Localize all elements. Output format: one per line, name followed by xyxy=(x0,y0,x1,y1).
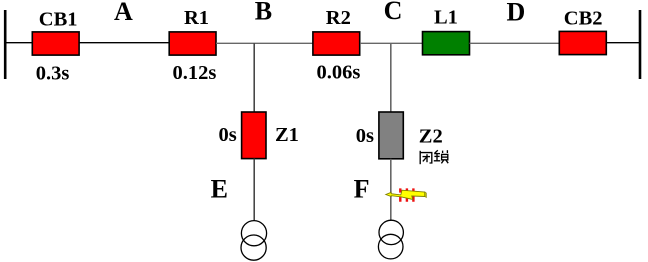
svg-text:D: D xyxy=(507,0,526,26)
wire node C down to Z2 xyxy=(390,43,392,112)
transformer T2 winding 2 xyxy=(378,234,403,259)
fault lightning arrow xyxy=(386,190,425,199)
svg-text:0s: 0s xyxy=(356,125,374,147)
svg-text:0s: 0s xyxy=(219,124,237,146)
svg-text:0.06s: 0.06s xyxy=(317,62,361,84)
svg-text:CB2: CB2 xyxy=(564,8,603,30)
wire busbarL-CB1 xyxy=(5,42,33,44)
transformer T2 winding 1 xyxy=(379,220,403,244)
svg-text:F: F xyxy=(354,175,370,204)
wire L1-CB2 xyxy=(470,42,560,44)
svg-text:Z1: Z1 xyxy=(275,124,299,146)
svg-text:C: C xyxy=(384,0,403,25)
relay Z2 (blocked) xyxy=(379,112,403,159)
wire Z1 to transformer T1 xyxy=(253,159,255,222)
fault red hatch dashes xyxy=(400,188,413,201)
breaker CB1 xyxy=(32,32,79,55)
svg-text:Z2: Z2 xyxy=(419,126,443,148)
svg-text:A: A xyxy=(114,0,133,26)
label 闭锁 (blocked) drawn as vector glyphs xyxy=(420,150,448,164)
wire CB1-R1 xyxy=(79,42,169,44)
svg-text:E: E xyxy=(211,174,228,203)
svg-text:B: B xyxy=(255,0,272,26)
svg-text:CB1: CB1 xyxy=(39,8,78,30)
wire node B down to Z1 xyxy=(253,43,255,112)
relay R2 xyxy=(313,32,360,55)
busbar right xyxy=(639,10,642,79)
transformer T1 winding 2 xyxy=(241,235,266,260)
wire R2-L1 xyxy=(360,42,423,44)
svg-text:0.12s: 0.12s xyxy=(173,62,217,84)
relay R1 xyxy=(169,32,216,55)
svg-text:R2: R2 xyxy=(326,7,351,29)
svg-text:0.3s: 0.3s xyxy=(36,62,70,84)
relay Z1 xyxy=(242,112,266,159)
svg-text:R1: R1 xyxy=(184,7,209,29)
wire R1-R2 xyxy=(216,42,314,44)
breaker CB2 xyxy=(559,31,606,54)
wire CB2-busbarR xyxy=(607,42,641,44)
transformer T1 winding 1 xyxy=(241,221,266,246)
svg-text:L1: L1 xyxy=(434,7,458,29)
load L1 xyxy=(423,32,470,55)
wire Z2 to transformer T2 xyxy=(390,159,392,221)
fault lightning 3d edge xyxy=(425,192,427,198)
busbar left xyxy=(4,10,7,79)
